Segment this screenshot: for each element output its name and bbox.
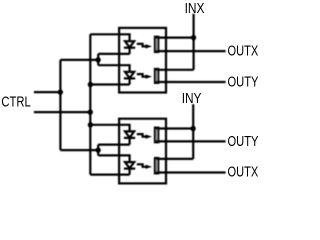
junction dot INX/S1: [191, 35, 196, 40]
wire V1 bus: [59, 60, 61, 150]
wire INX lead: [193, 14, 195, 70]
wire S3 bottom to OUTY: [156, 140, 226, 142]
wire CTRL upper to V1: [34, 91, 61, 93]
wire LED1 cathode to fork: [98, 53, 129, 55]
wire S4 top to INY corner: [156, 158, 193, 160]
switch plate S2: [155, 69, 159, 83]
wire LED4 anode from fork2: [98, 155, 129, 162]
wire S1 bottom to OUTX: [156, 50, 226, 52]
svg-text:CTRL: CTRL: [1, 94, 30, 110]
svg-text:OUTX: OUTX: [228, 164, 259, 180]
wire S3 top to INY node: [156, 127, 193, 129]
wire INY lead: [192, 104, 194, 159]
optocoupler box U2 (bottom): [119, 119, 166, 184]
junction dot fork1: [96, 57, 101, 62]
junction dot V2/LED3 anode: [88, 122, 93, 127]
wire fork2 bracket: [97, 145, 99, 156]
junction dot V2/LED2 cathode: [88, 82, 93, 87]
switch plate S1: [155, 37, 159, 53]
LED D4: [124, 162, 135, 175]
wire LED3 cathode to fork2: [98, 144, 129, 146]
LED D1: [124, 41, 135, 54]
wire CTRL lower to V2: [34, 111, 90, 113]
svg-text:OUTY: OUTY: [228, 75, 259, 91]
junction dot fork2: [96, 148, 101, 153]
wire S1 top to INX node: [156, 36, 194, 38]
switch plate S3: [155, 128, 159, 143]
wire fork2 feed: [60, 149, 98, 151]
junction dot INY/S3: [191, 126, 196, 131]
switch plate S4: [155, 158, 159, 174]
light arrow D4: [137, 164, 152, 169]
junction dot CTRL/V1: [58, 90, 63, 95]
wire LED2 anode from fork: [98, 65, 129, 72]
wire fork1 feed: [60, 59, 98, 61]
svg-text:OUTX: OUTX: [228, 43, 259, 59]
wire fork1 bracket: [97, 54, 99, 65]
wire S2 top to INX corner: [156, 69, 194, 71]
LED D2: [124, 72, 135, 85]
svg-text:INY: INY: [182, 91, 202, 107]
svg-text:INX: INX: [185, 1, 205, 17]
LED D3: [124, 131, 135, 144]
svg-text:OUTY: OUTY: [228, 134, 259, 150]
light arrow D3: [137, 134, 152, 139]
light arrow D2: [137, 74, 152, 79]
wire LED4 cathode to V2: [90, 174, 129, 176]
junction dot V2/CTRL lower: [88, 110, 93, 115]
light arrow D1: [137, 44, 152, 49]
wire LED1 anode from V2: [90, 34, 129, 41]
wire LED3 anode from V2: [90, 125, 129, 132]
wire S2 bottom to OUTY: [156, 81, 226, 83]
optocoupler box U1 (top): [119, 28, 166, 93]
wire S4 bottom to OUTX: [156, 171, 226, 173]
wire LED2 cathode to V2: [90, 83, 129, 85]
wire V2 bus: [89, 34, 91, 174]
